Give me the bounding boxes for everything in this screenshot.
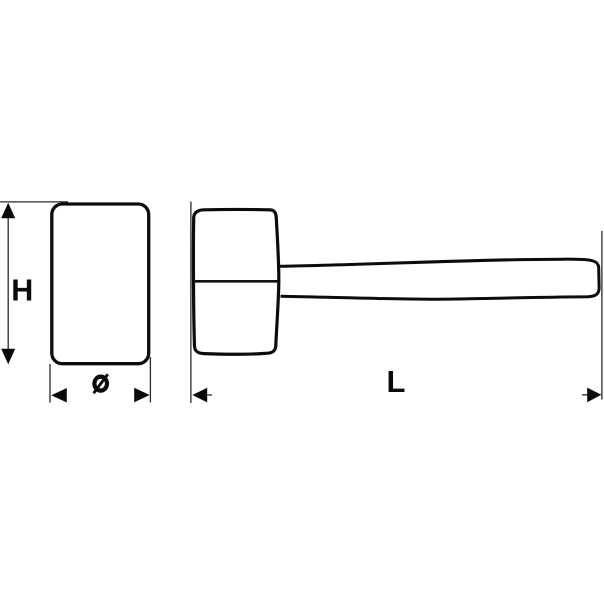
label diameter (slashed o) bbox=[94, 374, 108, 393]
dimension line H bbox=[7, 206, 9, 362]
extension line L right bbox=[601, 231, 603, 400]
dimension line L stub left bbox=[207, 394, 212, 396]
arrowhead diameter left bbox=[51, 388, 67, 403]
extension line top of H bbox=[0, 201, 68, 203]
arrowhead diameter right bbox=[134, 388, 150, 403]
arrowhead H down bbox=[1, 349, 15, 365]
arrowhead H up bbox=[1, 203, 15, 219]
dimension line L stub right bbox=[582, 394, 588, 396]
svg-text:H: H bbox=[11, 274, 33, 308]
mallet head side view parting line bbox=[193, 280, 277, 283]
extension line L left bbox=[190, 202, 192, 403]
extension line diameter right bbox=[149, 357, 151, 402]
arrowhead L left bbox=[192, 388, 207, 403]
svg-text:L: L bbox=[387, 364, 406, 399]
mallet head side view outline bbox=[193, 209, 278, 354]
arrowhead L right bbox=[587, 388, 601, 403]
extension line diameter left bbox=[49, 364, 51, 403]
handle side view bbox=[280, 259, 600, 299]
mallet head front view (rounded rectangle) bbox=[52, 204, 149, 364]
